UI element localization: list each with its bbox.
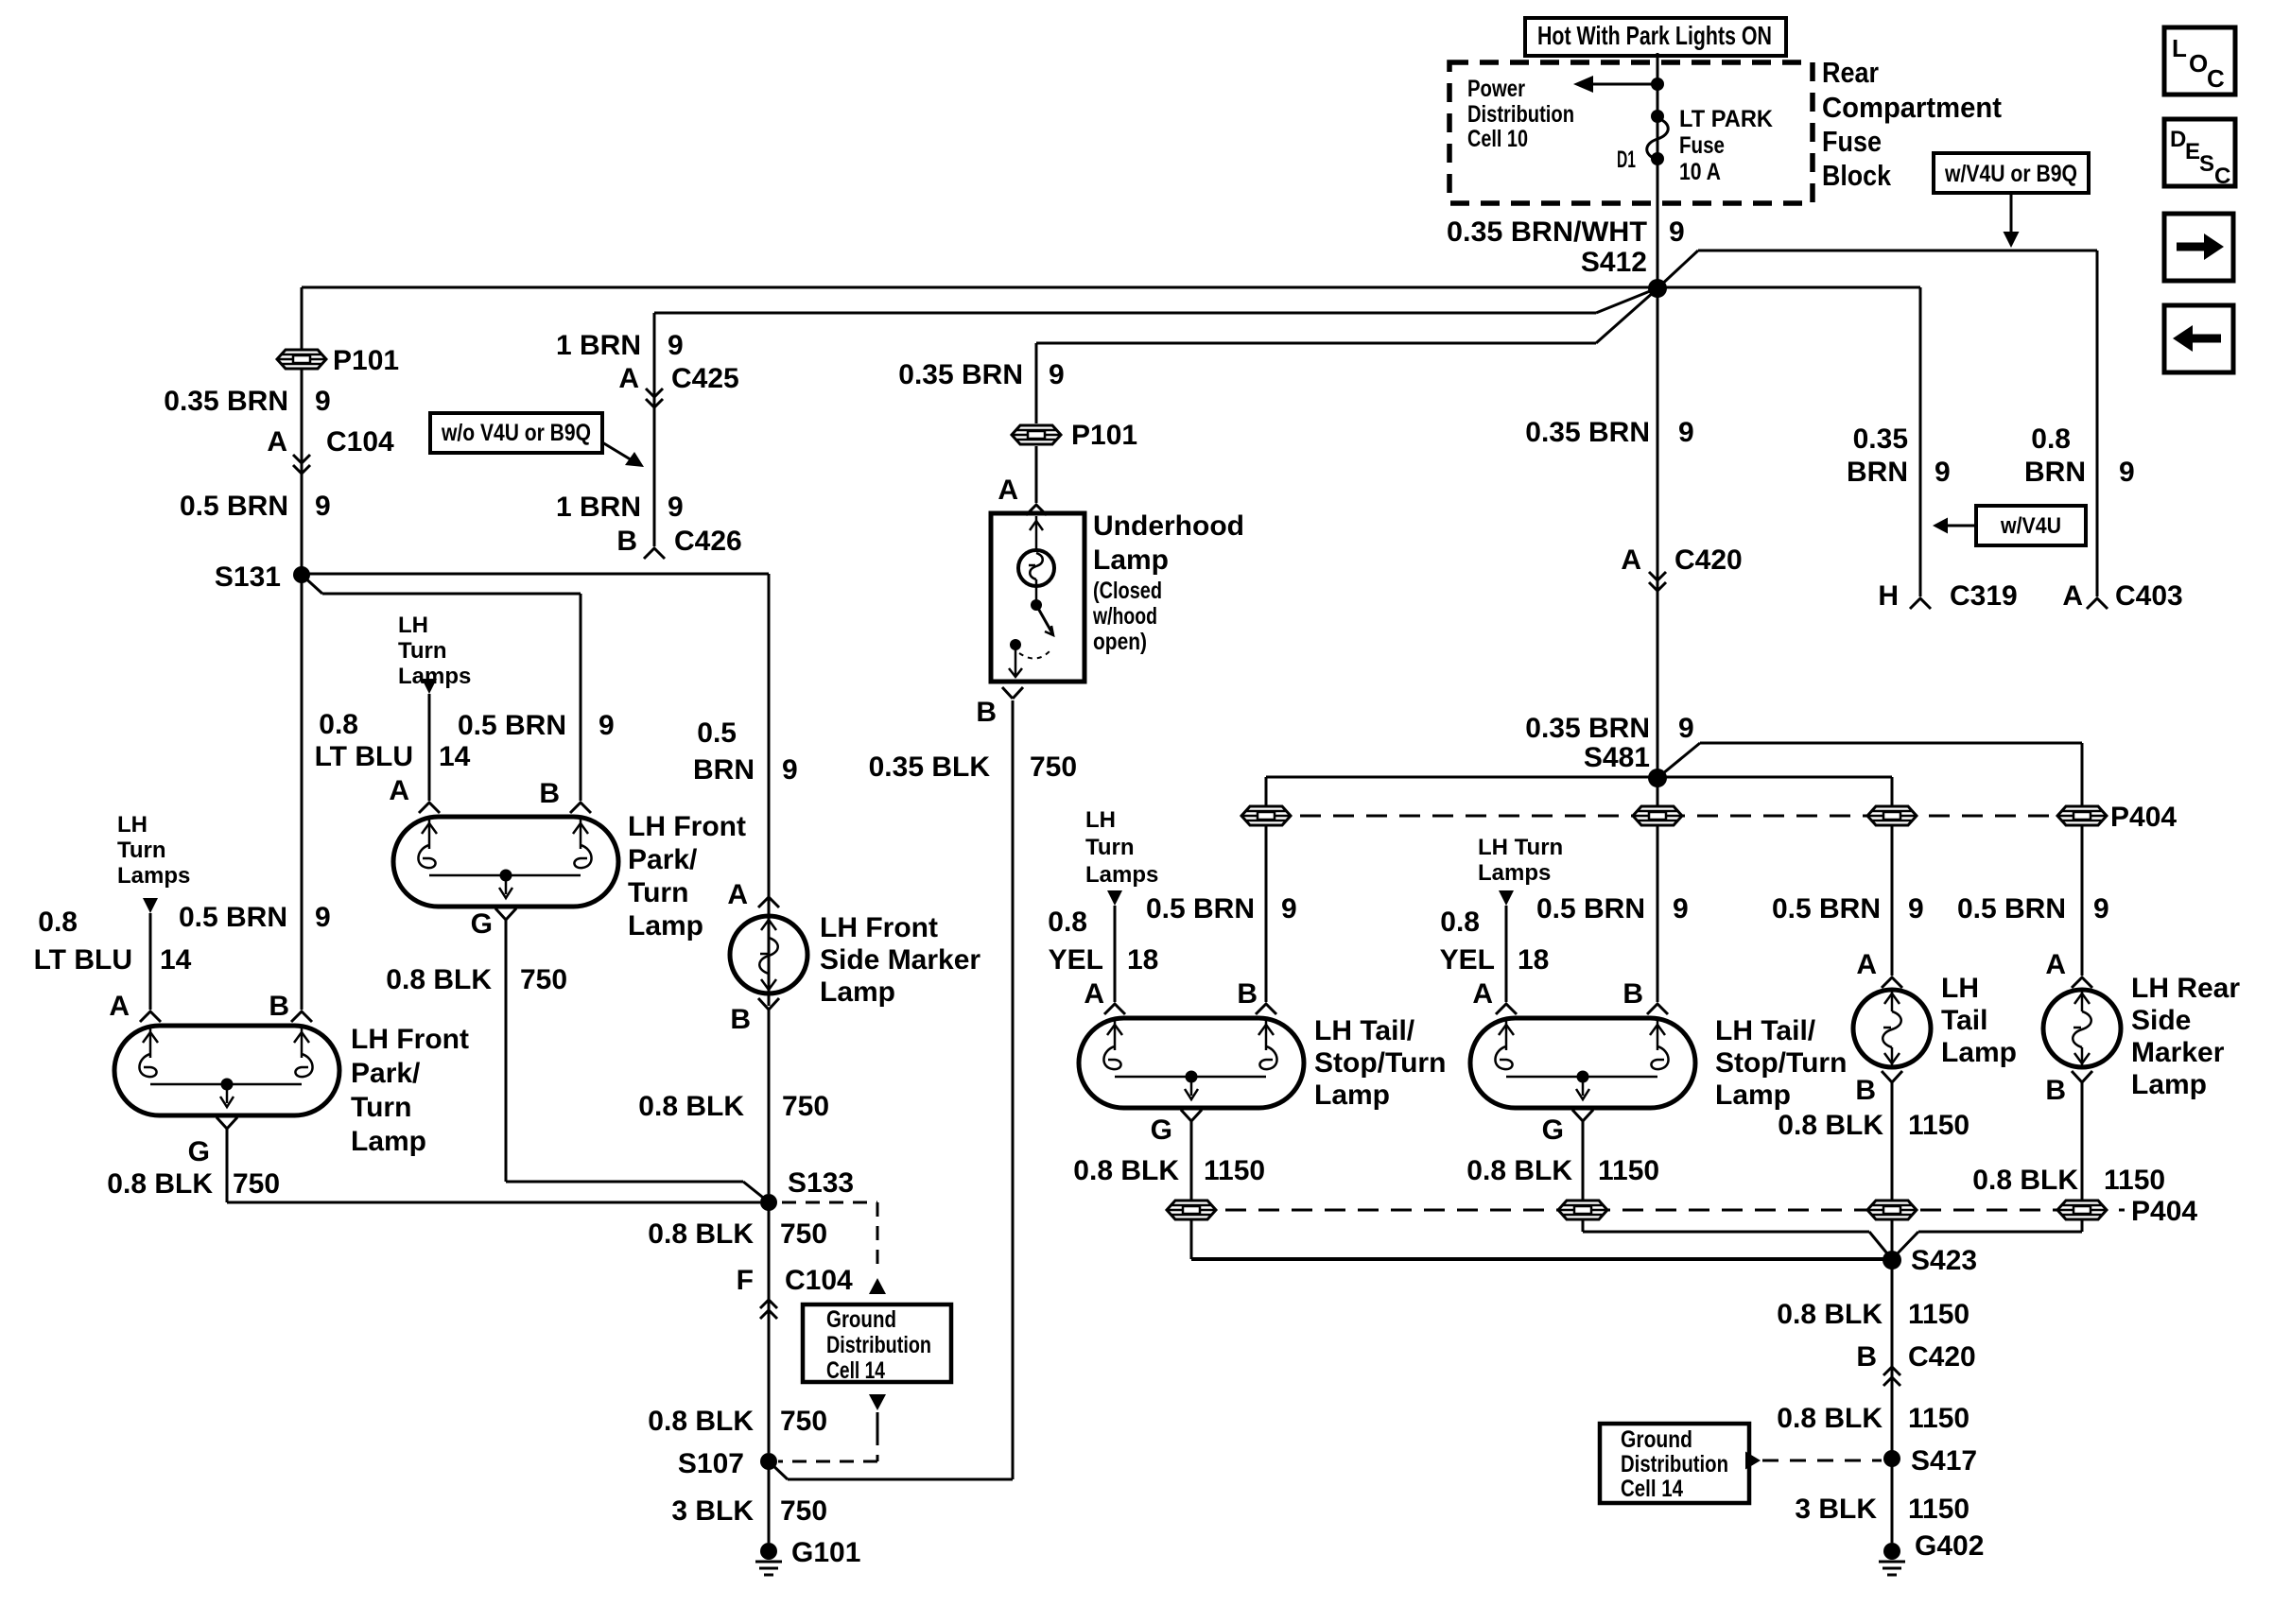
svg-text:A: A xyxy=(2062,580,2083,612)
svg-text:LT PARK: LT PARK xyxy=(1679,106,1773,132)
svg-text:750: 750 xyxy=(233,1168,280,1200)
svg-text:YEL: YEL xyxy=(1049,944,1103,976)
svg-text:Side Marker: Side Marker xyxy=(820,944,980,976)
svg-text:LH Front: LH Front xyxy=(628,811,746,842)
svg-text:3 BLK: 3 BLK xyxy=(1795,1494,1877,1525)
svg-text:S412: S412 xyxy=(1581,247,1647,278)
svg-text:9: 9 xyxy=(1678,417,1694,448)
svg-text:18: 18 xyxy=(1518,944,1549,976)
svg-text:0.8: 0.8 xyxy=(319,709,358,740)
svg-text:S423: S423 xyxy=(1911,1245,1977,1276)
svg-text:Lamp: Lamp xyxy=(1941,1037,2017,1068)
svg-text:LH: LH xyxy=(398,613,428,638)
svg-text:S: S xyxy=(2199,151,2214,177)
svg-text:Lamp: Lamp xyxy=(1093,544,1169,576)
svg-text:750: 750 xyxy=(780,1406,827,1437)
svg-text:BRN: BRN xyxy=(1847,457,1908,488)
svg-text:A: A xyxy=(389,775,409,806)
svg-text:Lamp: Lamp xyxy=(820,976,895,1008)
svg-text:A: A xyxy=(1856,949,1877,980)
svg-text:0.5 BRN: 0.5 BRN xyxy=(1957,893,2066,924)
svg-text:D: D xyxy=(2170,127,2186,152)
svg-text:Fuse: Fuse xyxy=(1822,125,1882,158)
svg-text:750: 750 xyxy=(520,964,567,995)
svg-text:9: 9 xyxy=(782,754,798,786)
svg-text:Ground: Ground xyxy=(826,1306,896,1333)
svg-text:Distribution: Distribution xyxy=(826,1332,931,1358)
svg-text:9: 9 xyxy=(315,902,331,933)
svg-text:0.35 BRN: 0.35 BRN xyxy=(1525,713,1650,744)
svg-text:0.35 BRN: 0.35 BRN xyxy=(898,359,1023,390)
svg-text:Lamp: Lamp xyxy=(628,910,703,942)
svg-text:E: E xyxy=(2185,139,2200,164)
svg-text:750: 750 xyxy=(782,1091,829,1122)
svg-text:0.8 BLK: 0.8 BLK xyxy=(1466,1155,1572,1186)
svg-text:14: 14 xyxy=(439,741,471,772)
svg-text:1150: 1150 xyxy=(2104,1165,2165,1196)
svg-text:BRN: BRN xyxy=(693,754,755,786)
svg-text:Marker: Marker xyxy=(2131,1037,2225,1068)
svg-text:0.8 BLK: 0.8 BLK xyxy=(1777,1403,1883,1434)
svg-text:B: B xyxy=(539,778,560,809)
svg-text:Lamp: Lamp xyxy=(351,1126,426,1157)
svg-text:0.8 BLK: 0.8 BLK xyxy=(648,1406,754,1437)
svg-text:B: B xyxy=(976,697,997,728)
svg-text:G101: G101 xyxy=(791,1537,860,1568)
svg-text:1 BRN: 1 BRN xyxy=(556,492,641,523)
svg-text:0.8 BLK: 0.8 BLK xyxy=(107,1168,213,1200)
svg-text:0.8 BLK: 0.8 BLK xyxy=(1972,1165,2078,1196)
svg-text:0.35 BRN: 0.35 BRN xyxy=(164,386,288,417)
svg-text:B: B xyxy=(1622,978,1643,1010)
svg-text:S481: S481 xyxy=(1584,742,1650,773)
svg-text:L: L xyxy=(2172,34,2187,62)
svg-text:LH: LH xyxy=(1941,973,1979,1004)
svg-text:750: 750 xyxy=(780,1218,827,1250)
svg-text:Stop/Turn: Stop/Turn xyxy=(1314,1047,1446,1079)
svg-text:1150: 1150 xyxy=(1908,1299,1969,1330)
svg-text:1150: 1150 xyxy=(1908,1403,1969,1434)
svg-text:A: A xyxy=(1084,978,1104,1010)
svg-text:P101: P101 xyxy=(333,345,399,376)
svg-text:C104: C104 xyxy=(326,426,394,458)
svg-text:LH Tail/: LH Tail/ xyxy=(1715,1015,1816,1046)
svg-text:Distribution: Distribution xyxy=(1621,1451,1728,1477)
svg-text:0.8 BLK: 0.8 BLK xyxy=(1073,1155,1179,1186)
svg-text:Lamps: Lamps xyxy=(117,863,190,889)
svg-text:18: 18 xyxy=(1127,944,1158,976)
svg-text:9: 9 xyxy=(315,386,331,417)
svg-text:B: B xyxy=(1237,978,1258,1010)
svg-text:10 A: 10 A xyxy=(1679,159,1721,185)
svg-text:C: C xyxy=(2214,164,2230,189)
svg-text:1150: 1150 xyxy=(1908,1110,1969,1141)
svg-text:D1: D1 xyxy=(1617,147,1636,173)
svg-text:Stop/Turn: Stop/Turn xyxy=(1715,1047,1847,1079)
svg-text:3 BLK: 3 BLK xyxy=(671,1495,754,1527)
svg-text:S133: S133 xyxy=(788,1167,854,1199)
svg-text:9: 9 xyxy=(1935,457,1951,488)
svg-text:Hot With Park Lights ON: Hot With Park Lights ON xyxy=(1537,21,1772,50)
svg-text:G: G xyxy=(1151,1114,1172,1146)
svg-text:0.35 BLK: 0.35 BLK xyxy=(869,752,991,783)
svg-text:A: A xyxy=(109,991,130,1022)
svg-text:A: A xyxy=(2045,949,2066,980)
svg-text:S131: S131 xyxy=(215,561,281,593)
svg-text:Cell 14: Cell 14 xyxy=(1621,1476,1683,1502)
svg-text:B: B xyxy=(269,991,289,1022)
svg-text:BRN: BRN xyxy=(2024,457,2086,488)
svg-text:w/o V4U or B9Q: w/o V4U or B9Q xyxy=(441,420,591,446)
svg-text:0.5 BRN: 0.5 BRN xyxy=(1772,893,1881,924)
svg-text:750: 750 xyxy=(1030,752,1077,783)
svg-text:9: 9 xyxy=(1678,713,1694,744)
svg-text:C104: C104 xyxy=(785,1265,853,1296)
svg-text:0.8 BLK: 0.8 BLK xyxy=(1777,1299,1883,1330)
svg-text:O: O xyxy=(2189,49,2208,78)
svg-text:w/V4U or B9Q: w/V4U or B9Q xyxy=(1944,161,2077,187)
svg-text:0.8 BLK: 0.8 BLK xyxy=(638,1091,744,1122)
svg-text:Fuse: Fuse xyxy=(1679,132,1725,159)
svg-text:Distribution: Distribution xyxy=(1467,101,1574,128)
svg-text:0.8: 0.8 xyxy=(2031,423,2071,455)
svg-text:YEL: YEL xyxy=(1440,944,1495,976)
svg-text:0.5 BRN: 0.5 BRN xyxy=(1536,893,1645,924)
svg-text:LH: LH xyxy=(117,812,147,838)
svg-text:Cell 10: Cell 10 xyxy=(1467,126,1528,152)
svg-text:S107: S107 xyxy=(678,1448,744,1479)
svg-text:LH Front: LH Front xyxy=(820,912,938,943)
svg-text:LH Rear: LH Rear xyxy=(2131,973,2240,1004)
svg-text:0.35 BRN: 0.35 BRN xyxy=(1525,417,1650,448)
svg-text:C426: C426 xyxy=(674,526,742,557)
svg-text:Lamps: Lamps xyxy=(398,664,471,689)
svg-text:C319: C319 xyxy=(1950,580,2018,612)
svg-text:A: A xyxy=(1472,978,1493,1010)
svg-text:Lamps: Lamps xyxy=(1478,860,1551,886)
svg-text:Compartment: Compartment xyxy=(1822,91,2002,124)
svg-text:0.5 BRN: 0.5 BRN xyxy=(1146,893,1255,924)
svg-text:A: A xyxy=(998,475,1018,506)
svg-text:Rear: Rear xyxy=(1822,56,1879,89)
svg-text:Tail: Tail xyxy=(1941,1005,1987,1036)
svg-text:A: A xyxy=(267,426,287,458)
svg-text:G: G xyxy=(188,1136,210,1167)
svg-text:Turn: Turn xyxy=(398,638,447,664)
svg-text:S417: S417 xyxy=(1911,1445,1977,1477)
svg-text:P404: P404 xyxy=(2110,802,2177,833)
svg-text:H: H xyxy=(1878,580,1899,612)
svg-text:1150: 1150 xyxy=(1204,1155,1265,1186)
svg-text:0.5 BRN: 0.5 BRN xyxy=(180,491,288,522)
svg-text:9: 9 xyxy=(1281,893,1297,924)
svg-text:750: 750 xyxy=(780,1495,827,1527)
svg-text:9: 9 xyxy=(1908,893,1924,924)
svg-text:Cell 14: Cell 14 xyxy=(826,1357,885,1384)
svg-text:Side: Side xyxy=(2131,1005,2191,1036)
svg-text:open): open) xyxy=(1093,629,1147,655)
svg-text:A: A xyxy=(1621,544,1641,576)
svg-text:Block: Block xyxy=(1822,159,1892,192)
svg-text:9: 9 xyxy=(315,491,331,522)
svg-text:0.8 BLK: 0.8 BLK xyxy=(1778,1110,1883,1141)
svg-text:Lamp: Lamp xyxy=(1314,1080,1390,1111)
svg-text:0.8: 0.8 xyxy=(38,907,78,938)
svg-text:1150: 1150 xyxy=(1908,1494,1969,1525)
svg-text:C420: C420 xyxy=(1674,544,1743,576)
svg-text:C: C xyxy=(2207,64,2225,93)
svg-text:Underhood: Underhood xyxy=(1093,510,1244,542)
svg-text:0.35: 0.35 xyxy=(1853,423,1908,455)
svg-text:9: 9 xyxy=(2119,457,2135,488)
svg-text:B: B xyxy=(616,526,637,557)
svg-text:Turn: Turn xyxy=(628,877,688,908)
svg-text:9: 9 xyxy=(1049,359,1065,390)
svg-text:w/hood: w/hood xyxy=(1092,603,1157,630)
svg-text:Ground: Ground xyxy=(1621,1426,1692,1453)
svg-text:C420: C420 xyxy=(1908,1341,1976,1373)
svg-text:P101: P101 xyxy=(1071,420,1137,451)
svg-text:Turn: Turn xyxy=(117,838,166,863)
svg-text:C425: C425 xyxy=(671,363,739,394)
svg-text:LT BLU: LT BLU xyxy=(315,741,413,772)
svg-text:Park/: Park/ xyxy=(351,1058,421,1089)
svg-text:9: 9 xyxy=(668,330,684,361)
svg-text:0.35 BRN/WHT: 0.35 BRN/WHT xyxy=(1447,216,1647,248)
svg-text:Turn: Turn xyxy=(1085,835,1135,860)
svg-text:1 BRN: 1 BRN xyxy=(556,330,641,361)
svg-text:LH Turn: LH Turn xyxy=(1478,835,1563,860)
svg-text:Lamp: Lamp xyxy=(2131,1069,2207,1100)
svg-text:0.8 BLK: 0.8 BLK xyxy=(648,1218,754,1250)
svg-text:Lamps: Lamps xyxy=(1085,862,1158,888)
svg-text:G: G xyxy=(471,908,493,940)
svg-text:9: 9 xyxy=(1669,216,1685,248)
svg-text:LH Front: LH Front xyxy=(351,1024,469,1055)
svg-text:LT BLU: LT BLU xyxy=(34,944,132,976)
svg-text:9: 9 xyxy=(2093,893,2109,924)
svg-text:0.5: 0.5 xyxy=(697,717,737,749)
svg-text:Power: Power xyxy=(1467,76,1525,102)
svg-text:0.5 BRN: 0.5 BRN xyxy=(458,710,566,741)
svg-text:B: B xyxy=(1855,1075,1876,1106)
svg-text:Park/: Park/ xyxy=(628,844,698,875)
svg-text:(Closed: (Closed xyxy=(1093,578,1162,604)
svg-text:0.8 BLK: 0.8 BLK xyxy=(386,964,492,995)
svg-text:B: B xyxy=(730,1004,751,1035)
svg-text:C403: C403 xyxy=(2115,580,2183,612)
svg-text:w/V4U: w/V4U xyxy=(2000,513,2061,539)
svg-text:14: 14 xyxy=(160,944,192,976)
svg-text:B: B xyxy=(2045,1075,2066,1106)
svg-text:0.8: 0.8 xyxy=(1440,907,1480,938)
svg-text:9: 9 xyxy=(668,492,684,523)
svg-text:0.5 BRN: 0.5 BRN xyxy=(179,902,287,933)
svg-text:Turn: Turn xyxy=(351,1092,411,1123)
svg-text:G: G xyxy=(1542,1114,1564,1146)
svg-text:LH Tail/: LH Tail/ xyxy=(1314,1015,1415,1046)
svg-text:9: 9 xyxy=(1673,893,1689,924)
svg-text:Lamp: Lamp xyxy=(1715,1080,1791,1111)
svg-text:1150: 1150 xyxy=(1598,1155,1659,1186)
svg-text:B: B xyxy=(1856,1341,1877,1373)
svg-text:0.8: 0.8 xyxy=(1048,907,1087,938)
svg-text:G402: G402 xyxy=(1915,1530,1984,1562)
svg-text:9: 9 xyxy=(599,710,615,741)
svg-text:A: A xyxy=(618,363,639,394)
svg-text:LH: LH xyxy=(1085,807,1116,833)
svg-text:A: A xyxy=(727,879,748,910)
svg-text:P404: P404 xyxy=(2131,1196,2197,1227)
svg-text:F: F xyxy=(737,1265,754,1296)
